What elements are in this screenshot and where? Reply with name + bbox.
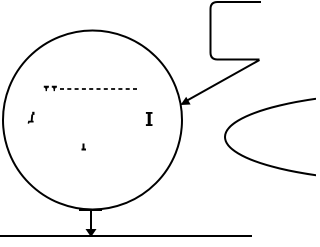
dashed line	[60, 88, 140, 90]
callout tail arrow head	[181, 97, 191, 105]
big ellipse clipped at right	[225, 93, 320, 182]
callout tail shaft	[184, 60, 260, 102]
big circle	[3, 31, 182, 210]
down arrow shaft	[90, 210, 92, 230]
letter I	[146, 112, 153, 126]
rounded callout body (open right)	[211, 2, 262, 60]
small integral-like glyph	[28, 112, 35, 124]
pin glyph 1	[44, 86, 49, 91]
tiny stem glyph	[82, 144, 87, 150]
pin glyph 2	[52, 86, 57, 91]
bottom horizontal line	[0, 235, 252, 237]
short tangent line under circle	[79, 209, 102, 211]
down arrow head	[86, 229, 97, 237]
